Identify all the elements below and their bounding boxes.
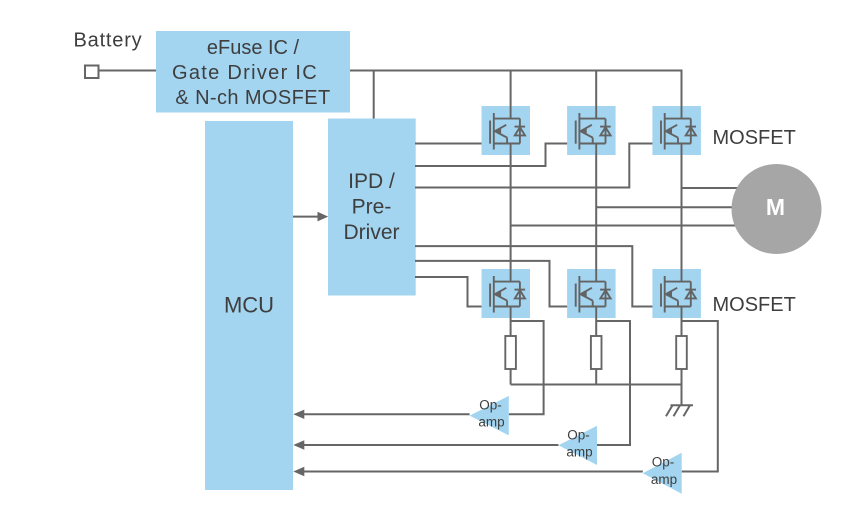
svg-text:eFuse IC /: eFuse IC / xyxy=(207,37,300,59)
svg-text:Driver: Driver xyxy=(344,221,400,244)
IPD / pre-driver block xyxy=(328,119,416,296)
svg-text:MOSFET: MOSFET xyxy=(713,294,796,316)
wire op-amp2 to MCU xyxy=(293,440,558,449)
svg-text:Gate Driver IC: Gate Driver IC xyxy=(172,62,318,84)
phase column 2 wire xyxy=(595,143,597,384)
sense tap wire 3 xyxy=(682,321,718,472)
svg-text:M: M xyxy=(766,194,785,220)
svg-text:MCU: MCU xyxy=(224,293,274,318)
wire rail to Q1 drain xyxy=(510,71,512,119)
wire op-amp1 to MCU xyxy=(293,410,469,419)
eFuse / gate driver block xyxy=(156,31,350,113)
phase column 3 wire xyxy=(681,143,683,384)
wire rail to Q2 drain xyxy=(595,71,597,119)
svg-text:Op-: Op- xyxy=(567,428,590,443)
mosfet Q4 low-side xyxy=(482,269,531,318)
svg-text:amp: amp xyxy=(566,445,592,460)
ground xyxy=(666,385,693,417)
motor phase wire U xyxy=(511,225,742,227)
svg-text:Battery: Battery xyxy=(74,30,143,52)
motor M xyxy=(732,164,822,254)
op-amp 2 xyxy=(558,426,597,465)
sense bus wire xyxy=(511,384,682,386)
gate wire low-side 1 xyxy=(415,277,491,307)
motor phase wire W xyxy=(682,187,743,189)
mosfet Q3 high-side xyxy=(652,106,701,155)
op-amp 3 xyxy=(643,453,682,494)
wire rail to IPD top xyxy=(373,71,375,119)
svg-text:amp: amp xyxy=(651,472,677,487)
svg-text:IPD /: IPD / xyxy=(348,170,395,193)
phase column 1 wire xyxy=(510,143,512,384)
mosfet Q2 high-side xyxy=(567,106,616,155)
gate wire high-side 2 xyxy=(415,144,577,167)
shunt resistor R1 xyxy=(505,336,516,369)
svg-text:& N-ch MOSFET: & N-ch MOSFET xyxy=(175,87,330,109)
svg-text:Pre-: Pre- xyxy=(352,196,392,219)
sense tap wire 2 xyxy=(596,321,630,445)
svg-text:Op-: Op- xyxy=(652,455,675,470)
shunt resistor R3 xyxy=(676,336,687,369)
wire op-amp3 to MCU xyxy=(293,467,643,476)
gate wire high-side 1 xyxy=(415,143,491,145)
wire battery to eFuse block xyxy=(99,70,157,72)
mosfet Q1 high-side xyxy=(482,106,531,155)
gate wire low-side 3 xyxy=(415,246,662,306)
supply rail from eFuse xyxy=(350,71,682,119)
gate wire low-side 2 xyxy=(415,261,577,307)
MCU block xyxy=(205,121,293,490)
arrow MCU to IPD xyxy=(293,212,328,222)
shunt resistor R2 xyxy=(591,336,602,369)
sense tap wire 1 xyxy=(509,321,544,414)
svg-text:MOSFET: MOSFET xyxy=(713,127,796,149)
mosfet Q5 low-side xyxy=(567,269,616,318)
svg-text:amp: amp xyxy=(478,415,504,430)
op-amp 1 xyxy=(470,396,509,436)
svg-text:Op-: Op- xyxy=(479,398,502,413)
gate wire high-side 3 xyxy=(415,144,662,188)
motor phase wire V xyxy=(596,206,740,208)
mosfet Q6 low-side xyxy=(652,269,701,318)
battery terminal xyxy=(85,66,99,79)
